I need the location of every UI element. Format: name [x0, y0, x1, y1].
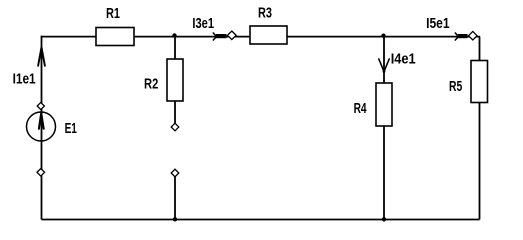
svg-text:I4e1: I4e1: [391, 51, 416, 68]
svg-text:I1e1: I1e1: [13, 70, 36, 87]
svg-text:I5e1: I5e1: [426, 15, 450, 32]
svg-text:E1: E1: [65, 120, 77, 137]
svg-text:R1: R1: [106, 5, 120, 22]
svg-text:R5: R5: [449, 78, 462, 95]
svg-text:R3: R3: [258, 5, 272, 22]
svg-text:R4: R4: [354, 100, 367, 117]
svg-text:I3e1: I3e1: [192, 15, 214, 32]
svg-text:R2: R2: [144, 75, 158, 92]
